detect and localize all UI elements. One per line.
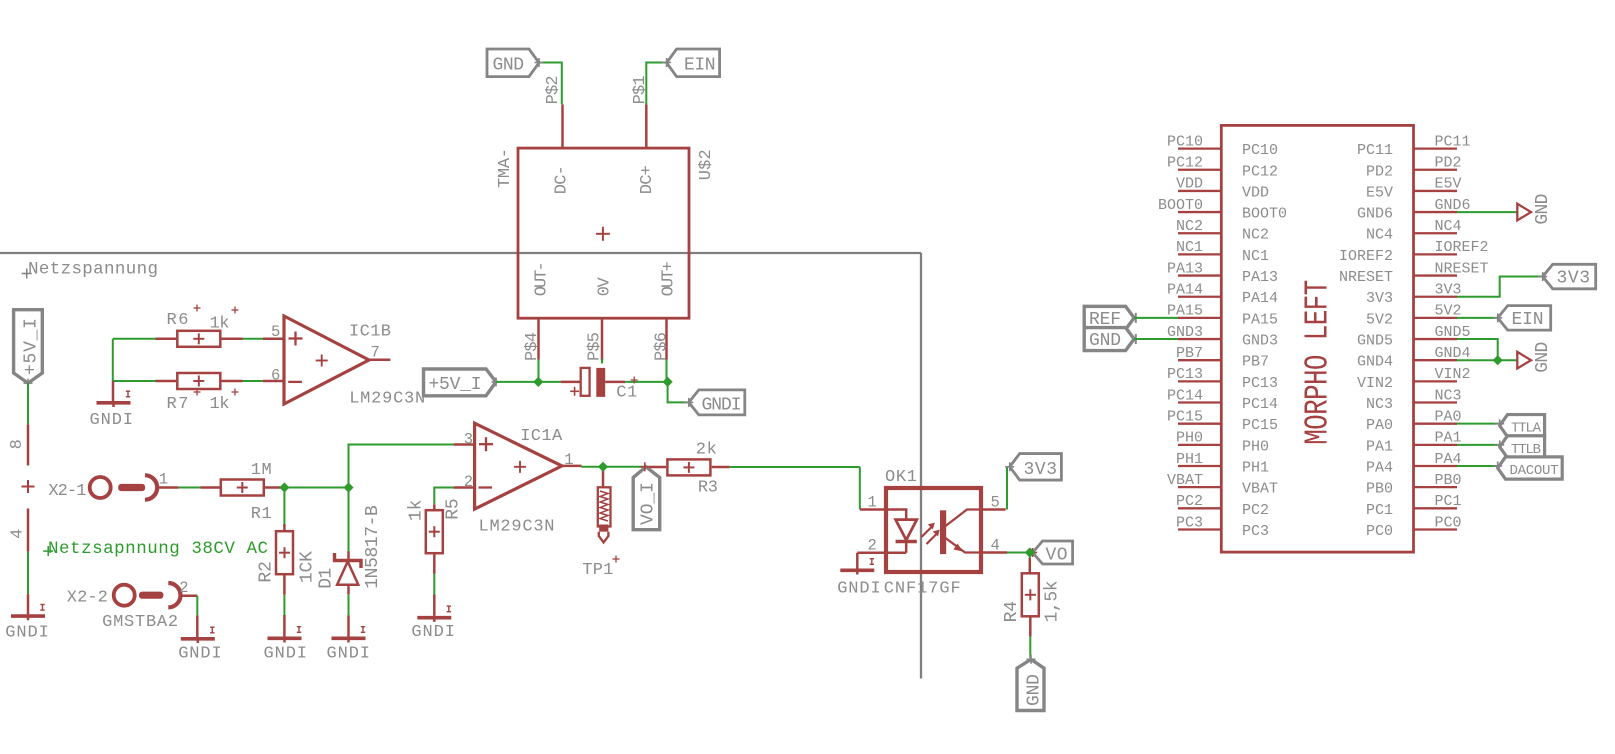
svg-text:P$5: P$5 xyxy=(586,332,605,361)
svg-text:PC12: PC12 xyxy=(1167,155,1203,172)
svg-text:NC4: NC4 xyxy=(1366,227,1393,244)
svg-text:PC14: PC14 xyxy=(1242,396,1278,413)
svg-text:R1: R1 xyxy=(251,505,272,524)
svg-text:NC2: NC2 xyxy=(1242,227,1269,244)
svg-text:Netzspannung: Netzspannung xyxy=(28,259,158,279)
svg-text:NC4: NC4 xyxy=(1435,218,1462,235)
svg-text:5: 5 xyxy=(991,494,1000,512)
svg-text:E5V: E5V xyxy=(1366,184,1393,201)
svg-text:1: 1 xyxy=(868,494,877,512)
svg-text:3V3: 3V3 xyxy=(1366,290,1393,307)
svg-text:R4: R4 xyxy=(1002,601,1022,623)
svg-text:NC1: NC1 xyxy=(1242,248,1269,265)
svg-text:PC15: PC15 xyxy=(1167,408,1203,425)
svg-text:GND: GND xyxy=(1025,674,1045,706)
svg-text:PC13: PC13 xyxy=(1167,366,1203,383)
svg-text:3: 3 xyxy=(464,431,473,449)
svg-text:PC13: PC13 xyxy=(1242,375,1278,392)
svg-text:PA14: PA14 xyxy=(1167,282,1203,299)
svg-text:PC1: PC1 xyxy=(1366,502,1393,519)
svg-text:TMA-: TMA- xyxy=(496,148,515,188)
svg-text:PA1: PA1 xyxy=(1366,438,1393,455)
svg-text:PB0: PB0 xyxy=(1366,481,1393,498)
svg-text:1k: 1k xyxy=(210,395,230,414)
svg-text:EIN: EIN xyxy=(1512,310,1544,330)
svg-text:3V3: 3V3 xyxy=(1557,269,1591,289)
svg-text:1k: 1k xyxy=(210,315,230,334)
svg-text:PC11: PC11 xyxy=(1435,133,1471,150)
svg-text:NC3: NC3 xyxy=(1435,387,1462,404)
svg-text:PC3: PC3 xyxy=(1242,523,1269,540)
svg-text:C1: C1 xyxy=(616,384,637,403)
svg-text:P$1: P$1 xyxy=(631,75,650,104)
svg-text:GNDI: GNDI xyxy=(5,624,49,643)
svg-text:GND: GND xyxy=(1533,342,1553,373)
svg-text:NRESET: NRESET xyxy=(1339,269,1393,286)
svg-text:GNDI: GNDI xyxy=(264,645,308,664)
svg-text:+5V_I: +5V_I xyxy=(22,318,42,375)
svg-text:Netzsapnnung 38CV AC: Netzsapnnung 38CV AC xyxy=(48,539,268,559)
svg-text:8: 8 xyxy=(8,439,27,449)
svg-text:4: 4 xyxy=(991,537,1000,555)
svg-text:PC14: PC14 xyxy=(1167,387,1203,404)
svg-text:PC3: PC3 xyxy=(1176,514,1203,531)
svg-text:TP1: TP1 xyxy=(582,561,613,580)
svg-text:VDD: VDD xyxy=(1242,184,1269,201)
svg-text:5V2: 5V2 xyxy=(1366,311,1393,328)
svg-text:1N5817-B: 1N5817-B xyxy=(363,505,383,589)
svg-text:6: 6 xyxy=(271,367,280,385)
svg-text:VIN2: VIN2 xyxy=(1357,375,1393,392)
svg-text:NRESET: NRESET xyxy=(1435,260,1489,277)
svg-text:DACOUT: DACOUT xyxy=(1510,463,1559,479)
svg-text:DC-: DC- xyxy=(553,165,572,194)
svg-text:GNDI: GNDI xyxy=(411,623,455,642)
svg-text:GNDI: GNDI xyxy=(327,645,371,664)
svg-text:DC+: DC+ xyxy=(638,165,657,194)
svg-text:X2-1: X2-1 xyxy=(48,482,86,501)
svg-text:NC2: NC2 xyxy=(1176,218,1203,235)
svg-text:LM29C3N: LM29C3N xyxy=(479,518,555,537)
svg-text:4: 4 xyxy=(9,529,28,539)
svg-text:PC0: PC0 xyxy=(1366,523,1393,540)
svg-text:2: 2 xyxy=(868,537,877,555)
svg-text:PD2: PD2 xyxy=(1366,163,1393,180)
svg-text:GND: GND xyxy=(1533,194,1553,225)
svg-text:D1: D1 xyxy=(317,568,337,589)
svg-text:VO: VO xyxy=(1046,546,1068,566)
svg-text:PA13: PA13 xyxy=(1242,269,1278,286)
svg-text:1: 1 xyxy=(564,451,573,469)
svg-text:EIN: EIN xyxy=(684,56,716,76)
svg-text:5: 5 xyxy=(271,323,280,341)
svg-text:IOREF2: IOREF2 xyxy=(1339,248,1393,265)
svg-text:BOOT0: BOOT0 xyxy=(1158,197,1203,214)
svg-text:7: 7 xyxy=(371,344,380,362)
svg-text:PC12: PC12 xyxy=(1242,163,1278,180)
svg-text:2k: 2k xyxy=(696,440,717,459)
svg-text:X2-2: X2-2 xyxy=(67,589,108,608)
svg-text:GND3: GND3 xyxy=(1242,333,1278,350)
svg-text:0V: 0V xyxy=(595,277,614,297)
svg-text:OUT+: OUT+ xyxy=(660,261,679,296)
svg-text:BOOT0: BOOT0 xyxy=(1242,206,1287,223)
svg-text:PH0: PH0 xyxy=(1242,438,1269,455)
svg-text:GNDI: GNDI xyxy=(90,411,134,430)
svg-text:PC10: PC10 xyxy=(1242,142,1278,159)
svg-text:R7: R7 xyxy=(167,395,189,414)
svg-text:GNDI: GNDI xyxy=(837,580,881,599)
svg-text:GND6: GND6 xyxy=(1357,206,1393,223)
svg-text:+5V_I: +5V_I xyxy=(429,375,482,395)
svg-text:PC10: PC10 xyxy=(1167,133,1203,150)
svg-text:U$2: U$2 xyxy=(697,149,716,180)
svg-text:IOREF2: IOREF2 xyxy=(1435,239,1489,256)
svg-text:CNF17GF: CNF17GF xyxy=(884,580,961,599)
svg-text:PC15: PC15 xyxy=(1242,417,1278,434)
svg-text:E5V: E5V xyxy=(1435,176,1462,193)
svg-text:GND: GND xyxy=(1089,331,1121,351)
svg-text:PA15: PA15 xyxy=(1242,311,1278,328)
svg-text:3V3: 3V3 xyxy=(1024,460,1058,480)
svg-text:2: 2 xyxy=(179,579,188,597)
svg-text:OK1: OK1 xyxy=(885,468,917,487)
svg-text:VIN2: VIN2 xyxy=(1435,366,1471,383)
svg-text:GND4: GND4 xyxy=(1357,354,1393,371)
svg-text:PC11: PC11 xyxy=(1357,142,1393,159)
svg-text:OUT-: OUT- xyxy=(532,261,551,296)
svg-text:PD2: PD2 xyxy=(1435,155,1462,172)
svg-text:IC1A: IC1A xyxy=(520,427,563,446)
svg-text:1,5k: 1,5k xyxy=(1043,580,1063,622)
svg-text:PA0: PA0 xyxy=(1366,417,1393,434)
svg-text:2: 2 xyxy=(464,473,473,491)
svg-text:R2: R2 xyxy=(257,561,277,583)
svg-text:PH1: PH1 xyxy=(1242,460,1269,477)
svg-text:P$2: P$2 xyxy=(544,75,563,104)
svg-text:P$6: P$6 xyxy=(652,332,671,361)
svg-text:PC2: PC2 xyxy=(1242,502,1269,519)
svg-text:1: 1 xyxy=(159,470,168,488)
svg-text:VBAT: VBAT xyxy=(1242,481,1278,498)
svg-text:GNDI: GNDI xyxy=(178,645,222,664)
svg-text:MORPHO LEFT: MORPHO LEFT xyxy=(1299,280,1337,445)
svg-text:PA4: PA4 xyxy=(1366,460,1393,477)
svg-text:VO_I: VO_I xyxy=(639,482,659,525)
svg-text:1k: 1k xyxy=(407,500,427,522)
svg-text:GND: GND xyxy=(493,56,525,76)
svg-text:GNDI: GNDI xyxy=(702,396,742,416)
svg-text:NC3: NC3 xyxy=(1366,396,1393,413)
svg-text:IC1B: IC1B xyxy=(349,322,391,341)
svg-text:1M: 1M xyxy=(251,461,272,480)
svg-text:PB0: PB0 xyxy=(1435,472,1462,489)
svg-text:GND5: GND5 xyxy=(1357,333,1393,350)
svg-text:PB7: PB7 xyxy=(1242,354,1269,371)
svg-text:VBAT: VBAT xyxy=(1167,472,1203,489)
svg-text:R5: R5 xyxy=(444,498,464,520)
svg-text:VDD: VDD xyxy=(1176,176,1203,193)
svg-text:PH1: PH1 xyxy=(1176,451,1203,468)
svg-text:PH0: PH0 xyxy=(1176,430,1203,447)
svg-text:LM29C3N: LM29C3N xyxy=(349,390,425,409)
svg-text:PA13: PA13 xyxy=(1167,260,1203,277)
svg-text:R6: R6 xyxy=(167,311,189,330)
svg-text:PB7: PB7 xyxy=(1176,345,1203,362)
svg-text:P$4: P$4 xyxy=(523,332,542,361)
svg-text:PC0: PC0 xyxy=(1435,514,1462,531)
svg-text:1CK: 1CK xyxy=(298,551,318,583)
svg-text:R3: R3 xyxy=(698,479,718,498)
svg-text:GMSTBA2: GMSTBA2 xyxy=(102,613,178,632)
svg-text:PC1: PC1 xyxy=(1435,493,1462,510)
svg-text:PC2: PC2 xyxy=(1176,493,1203,510)
svg-text:NC1: NC1 xyxy=(1176,239,1203,256)
svg-text:PA14: PA14 xyxy=(1242,290,1278,307)
